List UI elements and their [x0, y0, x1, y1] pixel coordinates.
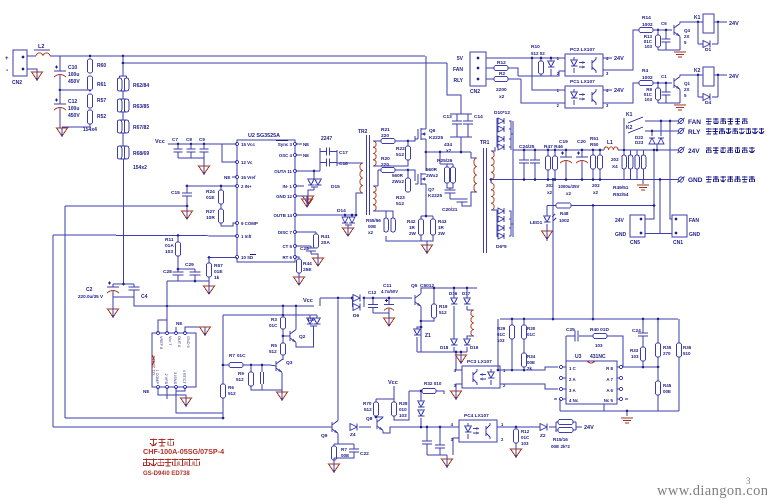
- Vcc label left: [155, 139, 165, 145]
- wire C2C4 top bar: [113, 283, 134, 285]
- svg-text:K2: K2: [626, 125, 633, 131]
- svg-text:C9: C9: [199, 137, 205, 142]
- svg-text:450V: 450V: [68, 79, 80, 85]
- capacitor C7: [172, 137, 183, 158]
- svg-text:R19: R19: [439, 304, 448, 309]
- U3 pin 2A: [559, 376, 576, 382]
- svg-text:PC4 LX107: PC4 LX107: [464, 413, 489, 419]
- svg-text:3 A: 3 A: [569, 388, 576, 393]
- wire x223 vertical: [222, 315, 224, 418]
- U2 right pin 11 OUTA: [274, 169, 296, 174]
- svg-text:TR2: TR2: [358, 129, 368, 135]
- svg-text:Q3: Q3: [286, 360, 293, 366]
- node Vcc-R3: [282, 305, 285, 308]
- resistor R52a: [83, 110, 106, 133]
- svg-text:10 SD: 10 SD: [241, 255, 253, 260]
- ground under R57b: [204, 281, 215, 294]
- svg-text:Sync 3: Sync 3: [278, 142, 293, 147]
- label 24V bottom: [584, 425, 594, 431]
- node x223 418: [222, 417, 225, 420]
- node bus gnd: [626, 410, 629, 413]
- ground under caps: [442, 455, 453, 468]
- transistor Q6 K2225 (MOSFET): [415, 128, 443, 141]
- wire OUTA: [295, 170, 320, 172]
- resistor R70 512: [363, 399, 379, 416]
- svg-text:GND: GND: [689, 232, 701, 238]
- resistor R14 1002: [639, 15, 653, 33]
- terminal RLY: [678, 128, 702, 136]
- wire R28 bottom: [394, 391, 409, 420]
- wire R10 bar: [518, 71, 565, 76]
- wire rail A: [65, 205, 187, 207]
- resistor R34 00E: [522, 353, 536, 371]
- zener Z1: [414, 326, 431, 352]
- svg-text:R57: R57: [97, 98, 106, 104]
- capacitor C6: [661, 21, 671, 50]
- resistor R28 010: [392, 399, 408, 418]
- wire R70 to Q8: [375, 416, 377, 417]
- wire rail A down: [64, 206, 66, 418]
- NE label U1 bottom: [143, 389, 149, 394]
- capacitor C29: [185, 262, 201, 281]
- svg-text:154x2: 154x2: [133, 165, 147, 171]
- wire D6 out: [364, 297, 412, 299]
- wire R4 to Q1 base: [653, 82, 672, 84]
- svg-text:x2: x2: [499, 94, 505, 100]
- wire 24V rail right: [618, 149, 678, 151]
- svg-text:100u: 100u: [68, 106, 79, 112]
- node K2 D4 left: [697, 74, 700, 77]
- svg-text:202: 202: [592, 183, 600, 188]
- svg-text:PC3 LX107: PC3 LX107: [467, 359, 492, 365]
- svg-text:C1: C1: [661, 74, 667, 79]
- svg-text:x2: x2: [547, 190, 553, 195]
- resistor R25/26 pair: [426, 152, 456, 183]
- node D2223 rail: [656, 149, 659, 152]
- resistor R4 1002: [639, 68, 653, 86]
- wire rect vertical bus: [512, 121, 514, 237]
- U2 right pin 14 OUTB: [273, 213, 296, 218]
- svg-text:434: 434: [444, 142, 452, 148]
- resistor R48 1002: [547, 203, 571, 223]
- capacitor C9: [199, 137, 209, 158]
- svg-text:9 COMP: 9 COMP: [241, 221, 258, 226]
- op-amp U2 SG3525A box: [237, 133, 295, 262]
- chinese desc GND: [706, 176, 755, 182]
- wire Q9 collector up: [337, 300, 339, 421]
- wire aux vcc: [320, 297, 352, 299]
- node K feed: [623, 149, 626, 152]
- zener D-IN1: [295, 185, 304, 187]
- svg-text:103: 103: [631, 354, 639, 359]
- svg-text:512: 512: [396, 152, 404, 158]
- capacitor C19 1000u: [559, 139, 572, 181]
- svg-text:4.7u/50V: 4.7u/50V: [381, 289, 398, 294]
- svg-text:15 Vcc: 15 Vcc: [241, 142, 255, 147]
- svg-text:R44: R44: [303, 261, 312, 267]
- transistor Q3: [276, 360, 293, 373]
- ground under GND rail: [637, 180, 649, 191]
- svg-text:R7: R7: [341, 447, 347, 452]
- svg-text:R27: R27: [206, 209, 215, 215]
- svg-text:C20/21: C20/21: [442, 207, 458, 213]
- node C10-C12: [59, 89, 62, 92]
- svg-text:FAN: FAN: [688, 119, 701, 126]
- title line1 (red chinese): [150, 439, 174, 447]
- optocoupler PC1 LX107: [557, 79, 609, 108]
- wire Q8 emitter: [383, 427, 398, 433]
- svg-text:C25: C25: [566, 327, 575, 333]
- node C13 stem: [460, 151, 463, 154]
- capacitor C24/25 b: [530, 149, 540, 181]
- svg-text:CT 5: CT 5: [282, 244, 292, 249]
- svg-text:R60: R60: [97, 63, 106, 69]
- label 24V K2: [729, 74, 739, 80]
- svg-text:C12: C12: [68, 99, 77, 105]
- wire C789 bottom bar: [178, 157, 204, 159]
- resistor R57a: [88, 94, 107, 108]
- ground under C23: [311, 254, 324, 266]
- svg-text:24V: 24V: [615, 218, 625, 224]
- U2 right pin 12 GND: [276, 194, 296, 199]
- resistor R46: [546, 149, 558, 195]
- diode D10-12 label: [494, 110, 510, 116]
- capacitor C21: [442, 198, 471, 213]
- svg-text:R28: R28: [399, 401, 408, 406]
- resistor R21 220: [378, 127, 408, 144]
- ground under Q3: [277, 392, 288, 401]
- svg-text:NE: NE: [143, 389, 149, 394]
- capacitor C24b: [632, 318, 648, 347]
- wire U1 pin1 down: [158, 387, 167, 395]
- resistor R3 01C: [269, 306, 286, 329]
- resistor R8 01C: [644, 83, 661, 103]
- svg-text:Q8: Q8: [366, 416, 373, 422]
- diode D4: [698, 75, 718, 106]
- svg-text:Q9: Q9: [321, 433, 328, 439]
- svg-text:1002: 1002: [559, 218, 570, 223]
- wire rail A bottom: [65, 417, 223, 419]
- U2 left pin 2 IN+: [235, 184, 252, 189]
- svg-text:512: 512: [396, 201, 404, 207]
- U3 pin A6: [606, 387, 622, 393]
- svg-text:01C: 01C: [521, 435, 530, 440]
- wire Z4 to Q8: [359, 426, 371, 428]
- svg-text:20A: 20A: [321, 240, 330, 246]
- svg-text:1R: 1R: [409, 225, 416, 230]
- node rail1-col2: [122, 55, 125, 58]
- rectifier diode col1: [497, 118, 511, 150]
- wire R2 to PC1 pin2: [521, 79, 565, 103]
- svg-text:512: 512: [228, 391, 236, 396]
- node R29 julia: [511, 369, 514, 372]
- svg-text:2 IN+: 2 IN+: [241, 184, 252, 189]
- resistor R29 01C: [497, 318, 515, 370]
- wire C28 C29 top: [178, 268, 195, 270]
- LED LED1: [530, 206, 556, 232]
- node K1 D1 left: [697, 21, 700, 24]
- node rail 593: [592, 318, 595, 321]
- svg-text:R30: R30: [527, 326, 536, 331]
- capacitor C10 100u/450V: [54, 56, 80, 90]
- svg-text:PC2 LX107: PC2 LX107: [570, 47, 595, 53]
- resistor R40 01D: [590, 327, 623, 364]
- svg-text:R24: R24: [206, 189, 215, 195]
- svg-text:3 ISNS: 3 ISNS: [173, 372, 177, 384]
- node OUTB TR2: [355, 214, 358, 217]
- svg-text:K2225: K2225: [429, 135, 443, 141]
- svg-text:01E: 01E: [214, 269, 223, 275]
- node C2 top: [122, 283, 125, 286]
- transistor Q9: [321, 421, 338, 440]
- svg-text:2247: 2247: [321, 136, 332, 142]
- transistor Q7 K2225 (MOSFET): [415, 173, 442, 199]
- resistor pair R67/82: [117, 112, 149, 133]
- ground under LED1: [542, 231, 553, 241]
- svg-text:FAN: FAN: [453, 67, 463, 73]
- svg-text:CN5: CN5: [630, 240, 640, 246]
- resistor pair R68/69: [117, 133, 149, 171]
- svg-text:R11: R11: [165, 237, 174, 243]
- node src: [425, 215, 428, 218]
- relay K1 coil: [694, 14, 714, 33]
- resistor R12cn 2200: [486, 60, 518, 76]
- optocoupler PC3 LX107: [454, 359, 506, 388]
- label Vcc PC4: [388, 380, 398, 386]
- svg-text:220.0u/35 V: 220.0u/35 V: [78, 294, 104, 299]
- wire source bar: [421, 215, 433, 217]
- connector CN1: [672, 215, 701, 246]
- label 24V PC2: [614, 56, 624, 62]
- svg-text:R21: R21: [381, 127, 390, 133]
- diode D16: [449, 287, 458, 339]
- node R22 gate6: [407, 140, 410, 143]
- resistor pair R63/85: [117, 91, 149, 112]
- capacitor C13: [443, 114, 472, 137]
- U1 bottom pin 1COMP: [155, 369, 160, 388]
- wire K1 left: [698, 21, 703, 23]
- svg-text:00E: 00E: [341, 453, 349, 458]
- label 560R 2Wx2 TR2: [392, 173, 404, 184]
- svg-text:Vcc: Vcc: [388, 380, 398, 386]
- TR1 primary winding: [471, 152, 477, 198]
- ground pin12 GND: [295, 196, 313, 207]
- svg-text:R7: R7: [229, 353, 235, 358]
- U2 right pin 6 RT: [282, 255, 296, 260]
- U3 pin R8: [606, 365, 622, 371]
- node IN+ C15: [186, 185, 189, 188]
- svg-text:GND 12: GND 12: [276, 194, 292, 199]
- node IN+ R24: [220, 185, 223, 188]
- node R4 out: [657, 82, 660, 85]
- svg-text:Q6: Q6: [429, 128, 436, 134]
- wire rail2 y63: [123, 62, 447, 64]
- node gnd riser: [659, 178, 662, 181]
- svg-text:01C: 01C: [269, 323, 278, 328]
- wire PC3 pin2 out: [500, 384, 558, 389]
- diode D20b: [418, 410, 425, 427]
- svg-text:25E: 25E: [303, 267, 312, 273]
- svg-text:C2: C2: [86, 287, 93, 293]
- svg-text:512 02: 512 02: [531, 51, 545, 56]
- svg-text:270: 270: [663, 351, 671, 356]
- terminal 24V: [678, 147, 701, 155]
- svg-text:510: 510: [683, 351, 691, 356]
- node C15 railA: [186, 205, 189, 208]
- diode D6-9 label: [496, 244, 507, 250]
- svg-text:D16: D16: [449, 291, 458, 296]
- wire Q9 emitter: [337, 434, 339, 445]
- label 24V PC1: [614, 88, 624, 94]
- resistor R9 512: [236, 365, 254, 386]
- svg-text:R29: R29: [497, 326, 506, 331]
- capacitor C8: [186, 137, 196, 158]
- wire rail drop left: [497, 319, 499, 370]
- NE label U1 top: [176, 321, 182, 333]
- wire R5 to Q3 collector: [282, 355, 283, 360]
- node R9 node: [250, 364, 253, 367]
- wire to Q6 gate: [408, 136, 415, 141]
- U2 right pin 1 IN-: [282, 184, 296, 189]
- resistor R33 103: [630, 347, 646, 367]
- U2 right pin 7 DISC: [278, 230, 297, 235]
- TR2 secondary lower: [373, 186, 378, 211]
- ground under C2: [108, 309, 119, 318]
- svg-text:C22: C22: [360, 451, 369, 457]
- resistor R36 510: [677, 319, 692, 411]
- svg-text:IN- 1: IN- 1: [282, 184, 292, 189]
- svg-text:GND: GND: [688, 177, 703, 184]
- svg-text:24V: 24V: [614, 88, 624, 94]
- svg-text:R9: R9: [238, 371, 244, 376]
- wire Q7 source down: [425, 184, 427, 216]
- wire U1 pin3 down: [176, 387, 223, 413]
- svg-text:Nc 5: Nc 5: [604, 398, 614, 403]
- resistor R15 (R15/16 pair): [556, 420, 576, 433]
- resistor R32 010: [409, 381, 444, 394]
- svg-text:NE: NE: [176, 321, 182, 326]
- zener D23b: [658, 120, 664, 144]
- ground under R7v: [329, 464, 340, 473]
- svg-text:OSC 4: OSC 4: [279, 153, 293, 158]
- U2 left pin 16 Vref: [235, 175, 256, 180]
- svg-text:R48: R48: [560, 211, 569, 216]
- U3 pin Nc5: [604, 397, 628, 403]
- wire 5V line: [486, 57, 565, 59]
- svg-text:K2225: K2225: [428, 193, 442, 199]
- svg-text:01C: 01C: [237, 353, 246, 358]
- wire to Q7 gate: [408, 170, 415, 181]
- ground under emitter bus: [456, 351, 467, 364]
- node sense 654: [653, 149, 656, 207]
- svg-text:010: 010: [399, 407, 407, 412]
- svg-text:A 7: A 7: [606, 377, 613, 382]
- svg-text:RT 6: RT 6: [282, 255, 292, 260]
- node C28 top: [177, 268, 180, 271]
- wire PC4 out: [497, 426, 540, 428]
- U1 gnd5 loop: [185, 327, 211, 336]
- wire R8 node: [622, 364, 624, 367]
- resistor R51b: [628, 150, 633, 180]
- wire gnd riser: [659, 180, 661, 234]
- TR2 secondary upper: [373, 141, 378, 166]
- wire K1 right 24V: [714, 21, 727, 23]
- wire K2 right 24V: [714, 74, 727, 76]
- svg-text:L2: L2: [38, 44, 44, 50]
- svg-text:1 COMP: 1 COMP: [155, 369, 159, 384]
- svg-text:R67/82: R67/82: [133, 125, 149, 131]
- wire rail2 drop: [447, 63, 461, 114]
- ground under C12: [57, 128, 68, 137]
- wire C2C4 bottom bar: [113, 296, 134, 298]
- node C9: [203, 143, 206, 146]
- wire PC1 out 24V: [603, 89, 612, 91]
- diode Z2: [540, 424, 547, 440]
- svg-text:R23: R23: [396, 195, 405, 201]
- wire Q2 collector: [295, 306, 297, 330]
- svg-text:24V: 24V: [729, 74, 739, 80]
- capacitor C27a: [435, 426, 445, 455]
- U2 right pin 4 OSC: [279, 153, 309, 158]
- node Q5 e R19: [420, 320, 423, 323]
- capacitor C30: [261, 364, 264, 384]
- svg-text:202: 202: [611, 157, 619, 162]
- wire R70 R28 top bar: [376, 398, 394, 400]
- svg-text:U2 SG3525A: U2 SG3525A: [248, 133, 280, 139]
- ground under R42R43: [422, 241, 433, 254]
- wire pin2 IN+: [187, 185, 237, 187]
- capacitor C17: [320, 136, 348, 156]
- ground under C15: [182, 206, 193, 219]
- wire to PC3 pin4: [455, 352, 457, 369]
- svg-text:GND: GND: [615, 232, 627, 238]
- svg-text:NE: NE: [224, 175, 230, 180]
- resistor R11 01A: [165, 236, 181, 257]
- svg-text:RLY: RLY: [688, 129, 701, 136]
- svg-text:00E: 00E: [663, 389, 671, 394]
- U3 pin 3A: [559, 387, 576, 393]
- svg-text:560R: 560R: [392, 173, 404, 178]
- resistor R50: [592, 149, 603, 195]
- capacitor C1: [661, 74, 671, 103]
- svg-text:C18: C18: [339, 161, 348, 167]
- svg-text:LED1: LED1: [530, 220, 543, 226]
- diode D6a: [351, 295, 366, 302]
- svg-text:1000u/35V: 1000u/35V: [558, 184, 580, 189]
- svg-text:1 C: 1 C: [569, 366, 577, 371]
- svg-text:01A: 01A: [165, 243, 174, 249]
- svg-text:2 VFB: 2 VFB: [164, 373, 168, 384]
- svg-text:U3: U3: [575, 354, 582, 360]
- svg-text:01C: 01C: [497, 332, 506, 337]
- svg-text:A 6: A 6: [606, 388, 613, 393]
- svg-text:x2: x2: [368, 230, 374, 235]
- ground under R12b: [511, 449, 522, 458]
- svg-text:CHF-100A-05SG/07SP-4: CHF-100A-05SG/07SP-4: [143, 447, 224, 456]
- node R8-R33: [642, 366, 645, 369]
- svg-text:R5: R5: [271, 343, 277, 348]
- wire R13C6 bottom bar: [658, 49, 680, 51]
- svg-text:3: 3: [746, 476, 751, 486]
- svg-text:16 Vref: 16 Vref: [241, 175, 256, 180]
- svg-text:R35: R35: [663, 345, 672, 350]
- U3 pin A7: [606, 376, 622, 382]
- wire Q3 emitter down: [281, 373, 283, 393]
- node Vcc-U1: [166, 305, 169, 308]
- ground under U1b: [167, 395, 192, 407]
- wire Q5 emitter: [420, 307, 422, 353]
- node TR1 centertap: [490, 178, 493, 181]
